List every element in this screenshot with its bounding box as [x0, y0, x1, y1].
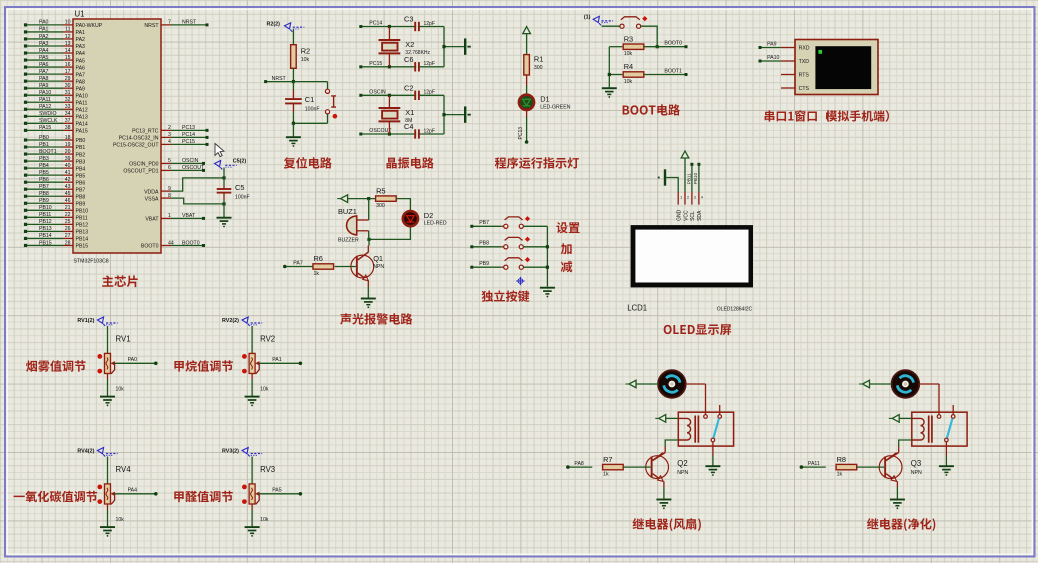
svg-text:NRST: NRST: [272, 76, 287, 82]
svg-text:VBAT: VBAT: [182, 213, 196, 219]
svg-text:PA2: PA2: [76, 37, 86, 43]
svg-text:PA11: PA11: [76, 100, 88, 106]
svg-text:BOOT0: BOOT0: [182, 240, 200, 246]
svg-text:20: 20: [65, 149, 71, 155]
svg-text:28: 28: [65, 240, 71, 246]
svg-text:10k: 10k: [260, 387, 269, 393]
svg-text:RV1(2): RV1(2): [77, 318, 94, 324]
svg-text:12pF: 12pF: [424, 90, 435, 96]
svg-text:PA9: PA9: [767, 42, 777, 48]
svg-text:C3: C3: [404, 15, 413, 24]
svg-text:7: 7: [168, 20, 171, 26]
svg-text:PA10: PA10: [767, 55, 779, 61]
svg-text:PB14: PB14: [39, 233, 52, 239]
svg-text:32: 32: [65, 97, 71, 103]
svg-text:C2: C2: [404, 84, 413, 93]
svg-text:BOOT0: BOOT0: [664, 41, 682, 47]
svg-text:4: 4: [168, 139, 171, 145]
svg-text:Q3: Q3: [911, 459, 921, 468]
svg-text:PA14: PA14: [76, 122, 88, 128]
svg-text:SWDIO: SWDIO: [39, 111, 57, 117]
svg-text:PA15: PA15: [76, 129, 88, 135]
svg-text:PB10: PB10: [693, 173, 698, 185]
svg-text:CTS: CTS: [799, 86, 810, 92]
svg-text:PA12: PA12: [76, 107, 88, 113]
svg-text:PB7: PB7: [39, 184, 49, 190]
svg-text:41: 41: [65, 170, 71, 176]
svg-text:15: 15: [65, 55, 71, 61]
svg-text:PB11: PB11: [686, 173, 691, 184]
svg-text:9: 9: [168, 186, 171, 192]
svg-text:31: 31: [65, 90, 71, 96]
svg-text:PB7: PB7: [76, 187, 86, 193]
svg-text:1: 1: [680, 195, 682, 199]
svg-text:16: 16: [65, 62, 71, 68]
svg-text:VSSA: VSSA: [145, 196, 159, 202]
svg-text:X1: X1: [405, 108, 414, 117]
svg-text:PB1: PB1: [39, 142, 49, 148]
svg-text:R2: R2: [301, 46, 310, 55]
svg-text:VDDA: VDDA: [144, 189, 159, 195]
svg-text:PC14: PC14: [182, 132, 195, 138]
svg-text:PB13: PB13: [39, 226, 52, 232]
svg-text:RV3: RV3: [260, 465, 275, 474]
svg-text:29: 29: [65, 76, 71, 82]
svg-text:14: 14: [65, 48, 71, 54]
svg-text:PA7: PA7: [76, 72, 86, 78]
svg-text:PB0: PB0: [39, 135, 49, 141]
svg-text:12pF: 12pF: [424, 128, 435, 134]
svg-text:1k: 1k: [313, 271, 319, 277]
svg-text:LCD1: LCD1: [627, 304, 647, 313]
svg-text:10: 10: [65, 20, 71, 26]
svg-text:PA8: PA8: [76, 79, 86, 85]
svg-text:300: 300: [376, 203, 385, 209]
svg-text:PB6: PB6: [76, 180, 86, 186]
svg-text:10k: 10k: [116, 387, 125, 393]
svg-text:Q1: Q1: [373, 254, 383, 263]
svg-text:VBAT: VBAT: [145, 217, 159, 223]
svg-text:1: 1: [168, 213, 171, 219]
svg-text:PB6: PB6: [39, 177, 49, 183]
svg-text:PA7: PA7: [293, 260, 303, 266]
svg-text:100nF: 100nF: [235, 195, 250, 201]
svg-text:C1: C1: [305, 95, 314, 104]
svg-text:44: 44: [168, 240, 174, 246]
svg-text:PC15: PC15: [369, 61, 382, 67]
svg-text:PB9: PB9: [76, 201, 86, 207]
svg-text:PB9: PB9: [479, 261, 489, 267]
svg-text:PB4: PB4: [76, 166, 86, 172]
svg-text:R4: R4: [624, 62, 633, 71]
svg-text:PA0-WKUP: PA0-WKUP: [76, 23, 103, 29]
svg-text:PC15-OSC32_OUT: PC15-OSC32_OUT: [113, 143, 159, 149]
svg-text:PA11: PA11: [39, 97, 51, 103]
svg-text:10k: 10k: [624, 51, 633, 57]
svg-text:42: 42: [65, 177, 71, 183]
svg-text:NRST: NRST: [182, 20, 197, 26]
svg-text:PB7: PB7: [479, 220, 489, 226]
svg-text:PA3: PA3: [76, 44, 86, 50]
svg-text:R1: R1: [534, 55, 543, 64]
svg-text:BOOT1: BOOT1: [664, 69, 682, 75]
svg-text:21: 21: [65, 205, 71, 211]
svg-text:STM32F103C8: STM32F103C8: [74, 259, 109, 265]
svg-text:PC14: PC14: [369, 21, 382, 27]
svg-text:PB13: PB13: [76, 230, 89, 236]
svg-text:RV4: RV4: [116, 465, 132, 474]
svg-text:1k: 1k: [603, 471, 609, 477]
svg-text:PA10: PA10: [76, 93, 88, 99]
svg-text:PC13_RTC: PC13_RTC: [132, 129, 159, 135]
svg-text:R5: R5: [376, 186, 385, 195]
svg-text:OSCIN: OSCIN: [369, 90, 386, 96]
svg-text:U1: U1: [75, 10, 85, 19]
svg-text:2: 2: [168, 125, 171, 131]
svg-text:PB1: PB1: [76, 145, 86, 151]
svg-text:NPN: NPN: [911, 470, 922, 476]
svg-text:PB8: PB8: [39, 191, 49, 197]
svg-text:C6: C6: [404, 55, 413, 64]
svg-text:R6: R6: [313, 254, 322, 263]
svg-text:PB5: PB5: [76, 173, 86, 179]
svg-text:3: 3: [168, 132, 171, 138]
svg-text:17: 17: [65, 69, 71, 75]
svg-text:PB12: PB12: [76, 223, 89, 229]
svg-text:C5(2): C5(2): [233, 159, 247, 165]
svg-text:RTS: RTS: [799, 73, 810, 79]
svg-text:PA8: PA8: [39, 76, 49, 82]
svg-text:BUZ1: BUZ1: [338, 207, 357, 216]
svg-text:100nF: 100nF: [305, 107, 320, 113]
svg-text:18: 18: [65, 135, 71, 141]
svg-text:Q2: Q2: [677, 459, 687, 468]
svg-text:OSCOUT: OSCOUT: [182, 165, 205, 171]
svg-text:PA15: PA15: [39, 125, 51, 131]
svg-text:25: 25: [65, 219, 71, 225]
svg-text:PB15: PB15: [76, 244, 89, 250]
svg-text:PA1: PA1: [272, 357, 282, 363]
svg-text:C4: C4: [404, 122, 413, 131]
svg-text:27: 27: [65, 233, 71, 239]
svg-text:RV2(2): RV2(2): [222, 318, 239, 324]
svg-text:34: 34: [65, 111, 71, 117]
svg-text:C5: C5: [235, 183, 244, 192]
svg-text:PA8: PA8: [574, 461, 584, 467]
svg-text:OSCIN_PD0: OSCIN_PD0: [129, 162, 159, 168]
svg-text:PA13: PA13: [76, 114, 88, 120]
svg-text:PA4: PA4: [128, 488, 138, 494]
svg-text:PB8: PB8: [479, 241, 489, 247]
svg-text:PB10: PB10: [39, 205, 52, 211]
svg-text:37: 37: [65, 118, 71, 124]
svg-text:43: 43: [65, 184, 71, 190]
svg-text:45: 45: [65, 191, 71, 197]
svg-text:PA0: PA0: [39, 20, 49, 26]
svg-text:PA0: PA0: [128, 357, 138, 363]
svg-text:PB15: PB15: [39, 240, 52, 246]
svg-text:PA6: PA6: [76, 65, 86, 71]
svg-text:38: 38: [65, 125, 71, 131]
svg-text:PB14: PB14: [76, 237, 89, 243]
svg-text:PA4: PA4: [39, 48, 49, 54]
svg-text:PA1: PA1: [39, 27, 49, 33]
svg-text:R7: R7: [603, 455, 612, 464]
svg-text:10k: 10k: [260, 517, 269, 523]
svg-text:PA2: PA2: [39, 34, 49, 40]
svg-text:PA5: PA5: [39, 55, 49, 61]
svg-text:10k: 10k: [301, 57, 310, 63]
svg-text:39: 39: [65, 156, 71, 162]
svg-text:PB11: PB11: [39, 212, 51, 218]
svg-text:13: 13: [65, 41, 71, 47]
svg-text:PB11: PB11: [76, 216, 88, 222]
svg-text:6: 6: [168, 165, 171, 171]
svg-text:26: 26: [65, 226, 71, 232]
svg-text:PA12: PA12: [39, 104, 51, 110]
svg-text:SCL: SCL: [690, 211, 696, 221]
svg-text:OLED12864I2C: OLED12864I2C: [717, 307, 753, 313]
svg-text:R3: R3: [624, 34, 633, 43]
svg-text:PA6: PA6: [39, 62, 49, 68]
svg-text:12pF: 12pF: [424, 61, 435, 67]
svg-text:10k: 10k: [624, 79, 633, 85]
svg-text:1k: 1k: [837, 471, 843, 477]
svg-text:PC13: PC13: [182, 125, 195, 131]
svg-text:(1): (1): [584, 14, 591, 20]
svg-text:TXD: TXD: [799, 59, 810, 65]
svg-text:PB3: PB3: [76, 159, 86, 165]
svg-text:PA10: PA10: [39, 90, 51, 96]
svg-text:LED-GREEN: LED-GREEN: [540, 104, 571, 110]
svg-text:RV3(2): RV3(2): [222, 449, 239, 455]
svg-text:BOOT1: BOOT1: [39, 149, 57, 155]
svg-text:PB8: PB8: [76, 194, 86, 200]
svg-text:PA9: PA9: [76, 86, 86, 92]
svg-text:PA9: PA9: [39, 83, 49, 89]
svg-text:R2(2): R2(2): [267, 21, 281, 27]
svg-text:PB3: PB3: [39, 156, 49, 162]
svg-text:30: 30: [65, 83, 71, 89]
svg-text:PA4: PA4: [76, 51, 86, 57]
svg-text:D1: D1: [540, 95, 549, 104]
svg-text:4: 4: [701, 195, 703, 199]
svg-text:NRST: NRST: [144, 23, 159, 29]
svg-text:PA5: PA5: [76, 58, 86, 64]
svg-text:PA7: PA7: [39, 69, 49, 75]
svg-text:OSCOUT_PD1: OSCOUT_PD1: [123, 169, 158, 175]
svg-text:PB5: PB5: [39, 170, 49, 176]
svg-text:PB2: PB2: [76, 152, 86, 158]
svg-text:300: 300: [534, 65, 543, 71]
svg-text:SDA: SDA: [697, 210, 703, 221]
svg-text:LED-RED: LED-RED: [424, 221, 447, 227]
svg-text:PB9: PB9: [39, 198, 49, 204]
svg-text:R8: R8: [837, 455, 846, 464]
svg-text:40: 40: [65, 163, 71, 169]
svg-text:D2: D2: [424, 211, 433, 220]
svg-text:10k: 10k: [116, 517, 125, 523]
svg-text:3: 3: [694, 195, 696, 199]
svg-text:33: 33: [65, 104, 71, 110]
svg-text:PA3: PA3: [39, 41, 49, 47]
svg-text:12pF: 12pF: [424, 21, 435, 27]
svg-text:8: 8: [168, 193, 171, 199]
svg-text:22: 22: [65, 212, 71, 218]
svg-text:BOOT0: BOOT0: [141, 244, 159, 250]
svg-text:RV4(2): RV4(2): [77, 449, 94, 455]
svg-text:19: 19: [65, 142, 71, 148]
svg-text:PA1: PA1: [76, 30, 86, 36]
svg-text:PB10: PB10: [76, 209, 89, 215]
svg-text:RXD: RXD: [799, 46, 810, 52]
svg-text:RV2: RV2: [260, 334, 275, 343]
svg-text:BUZZER: BUZZER: [338, 238, 359, 244]
svg-text:PB0: PB0: [76, 138, 86, 144]
svg-text:12: 12: [65, 34, 71, 40]
svg-text:PC14-OSC32_IN: PC14-OSC32_IN: [119, 136, 159, 142]
svg-text:VCC: VCC: [683, 210, 689, 221]
svg-text:PC13: PC13: [518, 127, 524, 140]
svg-text:GND: GND: [677, 209, 683, 221]
svg-text:PB12: PB12: [39, 219, 52, 225]
svg-text:NPN: NPN: [373, 264, 384, 270]
svg-text:RV1: RV1: [116, 334, 131, 343]
svg-text:NPN: NPN: [677, 470, 688, 476]
svg-text:5: 5: [168, 158, 171, 164]
svg-text:X2: X2: [405, 40, 414, 49]
svg-text:46: 46: [65, 198, 71, 204]
svg-text:PC15: PC15: [182, 139, 195, 145]
svg-text:SWCLK: SWCLK: [39, 118, 58, 124]
svg-text:2: 2: [687, 195, 689, 199]
svg-text:PA5: PA5: [272, 488, 282, 494]
svg-text:PA11: PA11: [808, 461, 820, 467]
svg-text:PB4: PB4: [39, 163, 49, 169]
svg-text:11: 11: [65, 27, 70, 33]
svg-text:OSCIN: OSCIN: [182, 158, 199, 164]
